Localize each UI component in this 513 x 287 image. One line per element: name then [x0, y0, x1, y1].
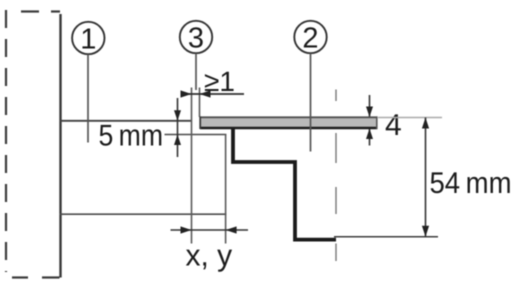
hob tray thick step profile [233, 129, 336, 240]
callout circle 3 [180, 21, 212, 53]
worktop cutout edge extension line [225, 135, 227, 244]
callout circle 1 [72, 22, 104, 54]
dimension 54 mm vertical line with arrows [425, 118, 427, 237]
glass slab right end [376, 116, 378, 129]
cabinet side panel solid right edge [59, 14, 61, 278]
svg-text:≥1: ≥1 [204, 66, 235, 97]
glass ceramic slab fill [200, 117, 378, 129]
leader 1 [87, 54, 89, 142]
dimension >=1 line and arrows [181, 93, 244, 95]
glass edge extension line [199, 88, 201, 118]
dimension 54 mm top reference line [378, 117, 442, 119]
centerline axis dashes [335, 90, 337, 262]
cabinet side panel dashed left edge [5, 10, 7, 272]
svg-text:54 mm: 54 mm [430, 167, 512, 200]
svg-text:x, y: x, y [186, 240, 233, 273]
cabinet side panel dashed top edge [21, 10, 60, 12]
dimension 5 mm arrows [177, 98, 179, 157]
worktop top surface line [60, 120, 192, 122]
cabinet side panel dashed bottom edge [12, 276, 60, 278]
worktop rebate edge extension line [191, 88, 193, 244]
leader 3 [195, 53, 197, 90]
svg-text:5 mm: 5 mm [99, 120, 164, 153]
glass slab bottom edge [200, 127, 378, 130]
worktop rebate floor line [165, 134, 227, 136]
dimension 4 arrows [369, 95, 371, 117]
callout circle 2 [294, 21, 326, 53]
svg-text:3: 3 [188, 23, 204, 55]
worktop bottom surface line [60, 213, 227, 215]
dimension 54 mm bottom reference line [334, 236, 438, 238]
glass slab top edge [200, 116, 378, 118]
svg-text:4: 4 [385, 109, 402, 142]
svg-text:2: 2 [302, 23, 318, 55]
svg-text:1: 1 [80, 24, 96, 56]
dimension x,y line and arrows [171, 229, 249, 231]
glass slab left end [199, 116, 201, 129]
leader 2 [310, 53, 312, 151]
